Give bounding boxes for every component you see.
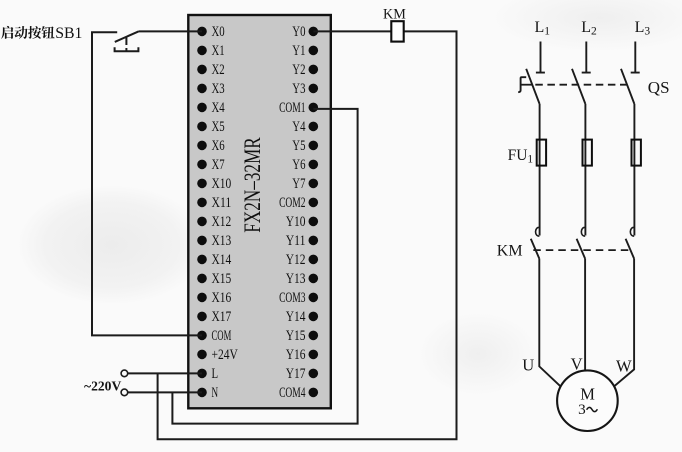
svg-text:L: L: [212, 366, 219, 382]
svg-text:SB1: SB1: [55, 25, 82, 42]
svg-text:COM: COM: [212, 328, 232, 344]
svg-text:3: 3: [578, 401, 586, 418]
svg-text:Y0: Y0: [292, 24, 305, 40]
svg-text:X10: X10: [212, 176, 232, 192]
svg-text:X7: X7: [212, 157, 225, 173]
svg-text:COM2: COM2: [279, 195, 305, 211]
svg-text:Y11: Y11: [286, 233, 306, 249]
svg-text:+24V: +24V: [212, 347, 239, 363]
svg-text:W: W: [616, 357, 632, 376]
svg-text:X0: X0: [212, 24, 225, 40]
svg-text:X1: X1: [212, 43, 225, 59]
svg-text:QS: QS: [648, 78, 670, 97]
svg-text:~220V: ~220V: [84, 379, 121, 394]
svg-text:X11: X11: [212, 195, 232, 211]
svg-text:V: V: [571, 354, 583, 373]
svg-text:Y12: Y12: [286, 252, 306, 268]
svg-text:X17: X17: [212, 309, 232, 325]
svg-text:FX2N–32MR: FX2N–32MR: [240, 137, 265, 233]
svg-text:X16: X16: [212, 290, 232, 306]
svg-text:N: N: [212, 385, 219, 401]
svg-text:Y14: Y14: [286, 309, 306, 325]
svg-text:X5: X5: [212, 119, 225, 135]
svg-text:Y2: Y2: [292, 62, 305, 78]
svg-text:X3: X3: [212, 81, 225, 97]
svg-text:Y10: Y10: [286, 214, 306, 230]
svg-text:X12: X12: [212, 214, 232, 230]
svg-text:Y13: Y13: [286, 271, 306, 287]
svg-text:X2: X2: [212, 62, 225, 78]
svg-text:Y5: Y5: [292, 138, 305, 154]
svg-text:COM4: COM4: [279, 385, 306, 401]
svg-text:KM: KM: [497, 243, 523, 260]
svg-text:X14: X14: [212, 252, 232, 268]
svg-text:X6: X6: [212, 138, 225, 154]
svg-text:X4: X4: [212, 100, 226, 116]
svg-text:COM1: COM1: [279, 100, 305, 116]
svg-text:X13: X13: [212, 233, 232, 249]
svg-text:KM: KM: [383, 7, 406, 23]
svg-text:Y1: Y1: [292, 43, 305, 59]
svg-text:Y15: Y15: [286, 328, 306, 344]
svg-text:X15: X15: [212, 271, 232, 287]
svg-text:Y7: Y7: [292, 176, 305, 192]
svg-text:Y3: Y3: [292, 81, 305, 97]
svg-text:Y6: Y6: [292, 157, 305, 173]
svg-text:COM3: COM3: [279, 290, 305, 306]
svg-text:U: U: [522, 356, 534, 375]
svg-text:Y17: Y17: [286, 366, 306, 382]
svg-text:Y16: Y16: [286, 347, 306, 363]
svg-text:Y4: Y4: [292, 119, 306, 135]
